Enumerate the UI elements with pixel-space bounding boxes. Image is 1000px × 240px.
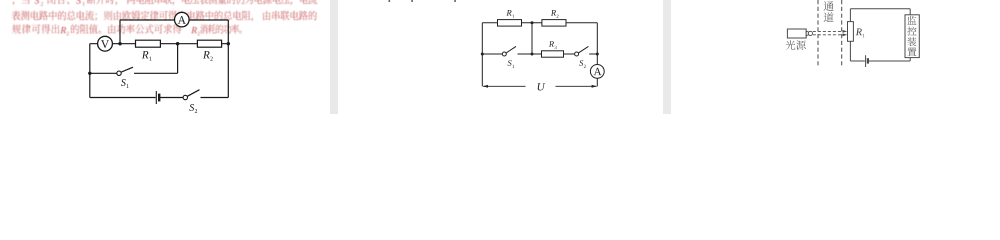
resistor R2 (middle) xyxy=(542,20,566,27)
node C (top-right junction) xyxy=(227,42,230,45)
ammeter A1 xyxy=(175,12,190,27)
monitoring device box xyxy=(905,15,919,58)
panel separator band 1 xyxy=(330,0,338,114)
label R1 xyxy=(507,10,515,18)
resistor R1 xyxy=(136,40,161,47)
label 监控装置 (vertical) xyxy=(907,16,916,56)
switch S2 (middle) xyxy=(575,52,579,56)
voltmeter V1 xyxy=(98,36,113,51)
label S2 (middle) xyxy=(579,60,586,68)
label S2 xyxy=(189,104,197,113)
resistor R2 xyxy=(197,40,221,47)
wire: left vertical xyxy=(89,44,91,98)
label R xyxy=(856,29,865,38)
label R3 xyxy=(549,41,557,49)
light source box xyxy=(787,29,806,38)
label R1 xyxy=(142,51,152,61)
channel dashed wall 1 xyxy=(817,0,819,67)
switch S1 (middle) xyxy=(502,52,506,56)
tiny cut-off marks at top xyxy=(389,0,391,2)
switch S2 xyxy=(183,95,187,99)
switch S1 xyxy=(117,71,121,75)
wire: top wire xyxy=(482,22,597,24)
wire: top wire segments xyxy=(90,43,229,45)
label S1 xyxy=(121,79,129,88)
wire: right vertical upper xyxy=(596,23,598,65)
label R2 xyxy=(203,51,213,61)
U measurement arrow left xyxy=(483,85,526,87)
ammeter branch wires xyxy=(120,20,228,44)
battery BT1 long plate xyxy=(155,91,157,104)
node D (junction on left wire) xyxy=(88,72,91,75)
wire: vertical from node E down xyxy=(531,23,533,54)
wire: loop top xyxy=(850,9,910,15)
node B (junction between R1 and R2) xyxy=(176,42,179,45)
wire: middle wire xyxy=(482,53,597,55)
switch S1 branch wire xyxy=(90,44,178,74)
label 通道 (vertical) xyxy=(824,1,834,22)
node E (junction R1-R2 top) xyxy=(531,21,534,24)
battery BT2 short plate xyxy=(867,58,869,63)
ammeter A (middle) xyxy=(590,65,604,79)
label U xyxy=(538,83,546,90)
channel dashed wall 2 xyxy=(841,0,843,67)
bottom wire segments xyxy=(90,97,229,99)
red answer text line 3 xyxy=(12,24,241,35)
wire: loop left vertical xyxy=(849,9,851,61)
label 光源 xyxy=(786,40,806,50)
battery BT2 long plate xyxy=(865,55,867,67)
label R2 xyxy=(551,10,559,18)
battery BT1 short plate xyxy=(158,94,160,102)
red answer text line 2 xyxy=(12,11,317,22)
wire: right vertical xyxy=(227,44,229,98)
resistor R3 xyxy=(542,51,564,57)
resistor R1 (middle) xyxy=(498,20,522,27)
node H (middle-right junction) xyxy=(596,53,599,56)
dashed light ray 2 xyxy=(813,34,844,36)
panel separator band 2 xyxy=(663,0,671,114)
photoresistor R box xyxy=(848,22,854,42)
wire: loop bottom xyxy=(850,60,910,62)
light source nozzle xyxy=(806,31,808,35)
U measurement arrow right xyxy=(556,85,597,87)
node G (junction under E) xyxy=(531,53,534,56)
wire: stub below box xyxy=(909,58,911,61)
wire: right vertical lower xyxy=(596,78,598,86)
node F (middle-left junction) xyxy=(481,53,484,56)
wire: left vertical xyxy=(481,23,483,87)
dashed light ray 1 xyxy=(813,30,844,32)
red answer text line 1 xyxy=(13,0,317,6)
node A (junction left of R1) xyxy=(118,42,121,45)
label S1 (middle) xyxy=(508,60,514,68)
